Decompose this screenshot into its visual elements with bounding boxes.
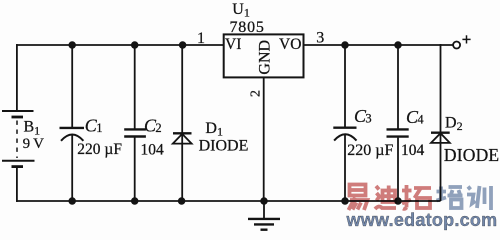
svg-text:1: 1: [96, 121, 102, 135]
diode D2: [431, 44, 450, 201]
wire pin3 from U1 VO to output terminal: [303, 44, 453, 46]
svg-text:VO: VO: [279, 36, 301, 53]
wire bottom bus: [16, 200, 441, 202]
ground: [248, 201, 280, 230]
char Tuo (red): [402, 185, 431, 209]
regulator U1 7805 box: [224, 34, 304, 201]
char Di (red): [375, 186, 396, 210]
svg-text:9 V: 9 V: [23, 136, 45, 152]
svg-text:7805: 7805: [230, 19, 265, 36]
svg-text:2: 2: [249, 90, 264, 97]
svg-text:www.edatop.com: www.edatop.com: [346, 210, 498, 230]
output terminal +: [453, 35, 471, 48]
watermark logo 易迪拓培训: [349, 185, 492, 211]
capacitor C1 (electrolytic): [60, 44, 85, 201]
svg-text:D2: D2: [445, 115, 463, 134]
wire left vertical above battery: [16, 44, 18, 111]
svg-text:D1: D1: [205, 120, 223, 139]
svg-text:1: 1: [197, 30, 205, 47]
char Pei (blue): [437, 187, 463, 209]
svg-text:220 µF: 220 µF: [77, 141, 122, 158]
svg-text:3: 3: [316, 29, 324, 46]
svg-text:4: 4: [417, 113, 424, 127]
svg-text:2: 2: [155, 121, 161, 135]
char Yi (red): [349, 185, 368, 211]
svg-text:3: 3: [365, 112, 371, 126]
char Xun (blue): [467, 186, 491, 210]
svg-text:104: 104: [141, 142, 165, 159]
svg-text:DIODE: DIODE: [199, 138, 249, 155]
svg-text:GND: GND: [256, 40, 273, 75]
svg-text:104: 104: [401, 142, 425, 159]
node B (junction dots bottom bus): [68, 197, 401, 205]
wire top bus from battery to U1 VI pin: [16, 44, 225, 46]
svg-text:U1: U1: [232, 1, 250, 20]
svg-text:VI: VI: [225, 36, 241, 53]
svg-text:220 µF: 220 µF: [347, 142, 393, 159]
svg-text:DIODE: DIODE: [444, 145, 499, 165]
battery B1: [2, 111, 35, 167]
svg-text:B1: B1: [24, 119, 41, 138]
capacitor C4 (ceramic 104): [387, 44, 409, 201]
node A (junction dots top bus): [68, 41, 401, 49]
wire left vertical below battery: [16, 167, 18, 202]
capacitor C2 (ceramic 104): [124, 44, 146, 201]
diode D1: [173, 44, 192, 201]
capacitor C3 (electrolytic): [333, 44, 356, 201]
